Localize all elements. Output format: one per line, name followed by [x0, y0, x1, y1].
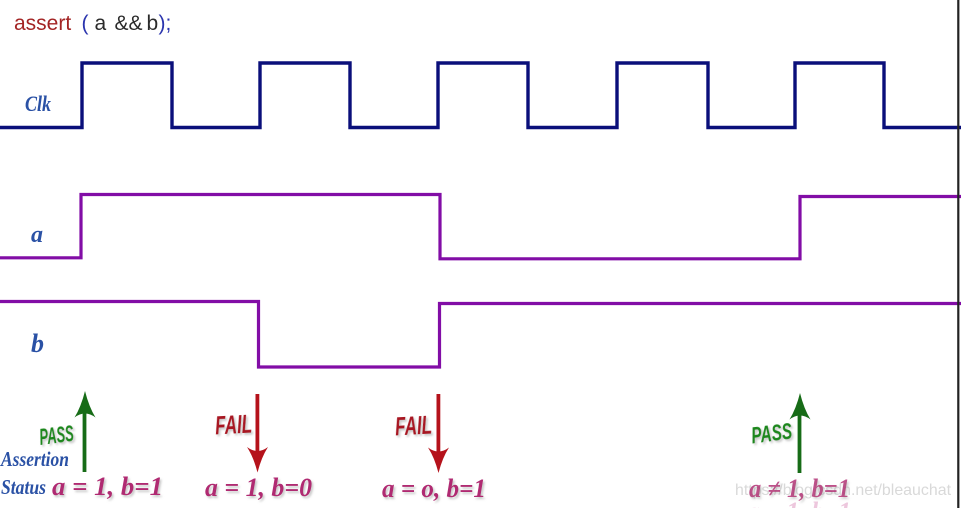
- svg-text:assert: assert: [14, 12, 71, 35]
- svg-text:b: b: [147, 12, 159, 35]
- svg-text:PASS: PASS: [750, 418, 794, 449]
- svg-text:a = 1, b=1: a = 1, b=1: [52, 472, 163, 501]
- svg-text:Status: Status: [1, 475, 46, 499]
- svg-text:Assertion: Assertion: [0, 447, 69, 471]
- svg-text:Clk: Clk: [25, 91, 51, 116]
- svg-text:b: b: [31, 329, 44, 358]
- svg-text:&&: &&: [115, 12, 143, 35]
- svg-text:PASS: PASS: [38, 420, 76, 450]
- svg-text:(: (: [82, 12, 89, 35]
- svg-text:a: a: [31, 222, 43, 248]
- svg-text:a = 1, b=1: a = 1, b=1: [747, 497, 851, 508]
- svg-text:);: );: [159, 12, 172, 35]
- svg-text:FAIL: FAIL: [394, 410, 433, 442]
- svg-text:a: a: [95, 12, 107, 35]
- svg-text:a = o, b=1: a = o, b=1: [382, 474, 486, 503]
- svg-text:FAIL: FAIL: [214, 409, 253, 441]
- svg-text:a = 1, b=0: a = 1, b=0: [205, 473, 312, 502]
